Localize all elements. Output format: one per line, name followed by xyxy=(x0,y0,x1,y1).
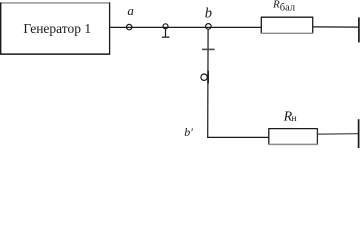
svg-text:Генератор 1: Генератор 1 xyxy=(23,21,91,36)
wire: bottom horizontal from corner to resistor Rн xyxy=(207,136,269,138)
tick mark on vertical wire xyxy=(202,48,215,50)
svg-text:b′: b′ xyxy=(184,125,193,139)
wire: vertical from node b down to corner xyxy=(207,30,209,138)
svg-text:R: R xyxy=(272,0,280,11)
svg-text:бал: бал xyxy=(280,2,295,13)
node b (circle junction) xyxy=(206,24,212,30)
svg-text:a: a xyxy=(127,3,134,18)
wire: generator to resistor Rбал (top horizontal) xyxy=(110,26,261,28)
terminal a (open circle on wire) xyxy=(127,24,132,29)
label Rн xyxy=(283,109,297,124)
resistor Rбал (rectangle) xyxy=(261,17,313,34)
resistor Rн (rectangle) xyxy=(268,128,317,144)
wire: Rбал to right terminal xyxy=(313,26,359,28)
generator box "Генератор 1" xyxy=(0,2,110,54)
wire: Rн to right terminal (gray) xyxy=(318,133,358,136)
plug/jack symbol (circle beside wire) xyxy=(201,71,208,84)
svg-text:н: н xyxy=(292,114,297,124)
svg-text:b: b xyxy=(205,6,212,22)
terminal bar top right xyxy=(358,17,360,42)
label Rбал xyxy=(272,0,295,13)
test-point terminal (circle with stub and tick) xyxy=(162,24,170,37)
terminal bar bottom right xyxy=(358,119,360,148)
